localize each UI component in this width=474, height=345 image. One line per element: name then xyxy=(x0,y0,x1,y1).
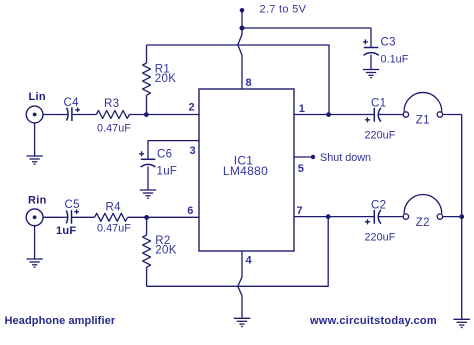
svg-text:C2: C2 xyxy=(371,200,386,212)
connector Rin xyxy=(26,209,60,226)
svg-text:Shut down: Shut down xyxy=(320,152,371,164)
wire supply vertical xyxy=(241,10,243,28)
svg-text:3: 3 xyxy=(190,145,196,157)
resistor R4 xyxy=(95,213,128,221)
svg-text:R4: R4 xyxy=(106,202,122,214)
headphones Z1 xyxy=(403,92,442,117)
capacitor C4 xyxy=(60,107,96,121)
connector Lin xyxy=(26,106,60,123)
wire pin 1 to C1 xyxy=(294,114,374,116)
svg-text:www.circuitstoday.com: www.circuitstoday.com xyxy=(309,315,437,327)
svg-text:6: 6 xyxy=(187,205,193,217)
svg-text:C1: C1 xyxy=(371,98,386,110)
shutdown terminal dot xyxy=(311,155,315,159)
wire to pin 6 xyxy=(128,216,199,218)
ground Lin xyxy=(26,156,42,164)
wire pin8 vertical with hop xyxy=(238,28,242,89)
capacitor C3 xyxy=(363,39,379,69)
ground Rin xyxy=(26,259,42,267)
svg-text:Z2: Z2 xyxy=(416,217,430,229)
capacitor C6 xyxy=(139,151,155,190)
svg-text:C4: C4 xyxy=(64,97,80,109)
svg-text:0.1uF: 0.1uF xyxy=(381,54,409,66)
wire Rin to ground xyxy=(34,226,36,259)
svg-text:1uF: 1uF xyxy=(56,225,76,237)
ground C6 xyxy=(140,190,156,198)
svg-text:4: 4 xyxy=(246,255,253,267)
headphones Z2 xyxy=(403,195,442,220)
wire right rail to ground xyxy=(443,115,462,319)
op-amp IC1 LM4880 box xyxy=(199,89,294,251)
wire to pin 2 xyxy=(129,114,199,116)
node inverting input ch2 xyxy=(144,215,149,220)
svg-text:1: 1 xyxy=(299,103,305,115)
svg-text:2: 2 xyxy=(189,102,195,114)
wire Lin to ground xyxy=(34,123,36,156)
wire feedback channel2 bottom xyxy=(147,217,329,287)
node inverting input ch1 xyxy=(144,112,149,117)
wire pin 7 to C2 xyxy=(294,216,374,218)
resistor R2 xyxy=(143,217,151,286)
capacitor C5 xyxy=(60,209,95,223)
svg-text:2.7 to 5V: 2.7 to 5V xyxy=(260,4,307,16)
svg-text:5: 5 xyxy=(298,163,304,175)
svg-text:Rin: Rin xyxy=(28,195,47,207)
svg-text:0.47uF: 0.47uF xyxy=(97,123,131,135)
ground C3 xyxy=(363,70,379,78)
svg-text:0.47uF: 0.47uF xyxy=(97,223,131,235)
svg-text:Z1: Z1 xyxy=(416,115,430,127)
wire pin 4 to ground with hop xyxy=(238,251,242,318)
power terminal dot xyxy=(240,8,245,13)
ground right rail xyxy=(454,319,470,327)
svg-text:R3: R3 xyxy=(104,98,119,110)
node output junction ch2 xyxy=(326,214,331,219)
wire supply rail to C3 xyxy=(242,28,371,47)
svg-text:7: 7 xyxy=(297,205,303,217)
svg-text:C6: C6 xyxy=(157,149,172,161)
svg-text:LM4880: LM4880 xyxy=(223,164,268,178)
capacitor C1 xyxy=(365,108,404,123)
svg-text:Lin: Lin xyxy=(29,91,46,103)
node supply junction xyxy=(240,26,245,31)
svg-text:220uF: 220uF xyxy=(365,232,396,244)
svg-text:1uF: 1uF xyxy=(157,166,178,178)
node right rail junction xyxy=(459,214,464,219)
wire pin 5 shutdown stub xyxy=(294,156,313,158)
capacitor C2 xyxy=(365,210,404,225)
wire pin 3 branch xyxy=(148,141,199,159)
ground pin 4 xyxy=(234,318,250,326)
svg-text:8: 8 xyxy=(246,77,252,89)
resistor R1 xyxy=(143,45,151,115)
node output junction xyxy=(326,112,331,117)
svg-text:Headphone amplifier: Headphone amplifier xyxy=(5,315,116,327)
wire feedback channel1 top xyxy=(147,45,330,115)
svg-text:C3: C3 xyxy=(381,37,396,49)
svg-text:220uF: 220uF xyxy=(365,130,396,142)
svg-text:20K: 20K xyxy=(155,73,176,85)
svg-text:C5: C5 xyxy=(65,199,80,211)
resistor R3 xyxy=(96,111,129,119)
svg-text:20K: 20K xyxy=(155,245,176,257)
